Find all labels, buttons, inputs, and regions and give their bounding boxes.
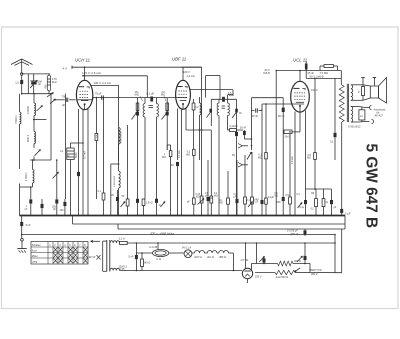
loudspeaker (370, 86, 378, 98)
UCH cathode wires (82, 110, 84, 148)
capacitor UBF cathode (176, 162, 179, 166)
svg-text:225 V: 225 V (255, 275, 262, 278)
tone capacitor 0,1 (334, 133, 337, 137)
bus line 3 (118, 228, 345, 230)
IF2 secondary lower (236, 121, 238, 132)
tube UCL11 (291, 81, 310, 112)
mains transformer bottom winding (110, 268, 120, 270)
svg-text:U 2×48: U 2×48 (149, 246, 158, 249)
IF2 bottom wires (218, 121, 220, 216)
svg-text:50: 50 (122, 195, 125, 198)
svg-text:500: 500 (277, 201, 282, 204)
capacitor 2x0,05uF (304, 230, 307, 234)
UBF screen loop (206, 75, 220, 77)
IF1 trimmer left (132, 112, 138, 120)
svg-text:pF: pF (62, 103, 65, 107)
wire band switch row (30, 159, 51, 161)
antenna A1 (11, 59, 33, 65)
wire tank bottom (22, 93, 51, 95)
antenna coil 700/0,1 (20, 112, 22, 124)
svg-text:0,1µ: 0,1µ (300, 207, 305, 209)
fuse 0,1A (120, 241, 128, 244)
switch position table (31, 242, 88, 265)
ground bus (20, 215, 346, 217)
svg-text:900: 900 (45, 84, 48, 89)
resistor 5k speaker (362, 87, 365, 96)
oscillator coil 0,0035 (34, 103, 36, 116)
UY11 leads (245, 243, 247, 268)
trimmer arrow row 2 (161, 202, 166, 208)
resistor col 290 (289, 197, 292, 204)
dial lamp (184, 250, 192, 258)
svg-text:Anschluss: Anschluss (374, 108, 387, 112)
resistor 50pF col (126, 199, 129, 206)
wave trap coil 0,003 (47, 75, 50, 91)
resistor 0,5M right (314, 78, 316, 152)
svg-text:0,2: 0,2 (311, 209, 315, 211)
svg-text:U 901 B/12: U 901 B/12 (348, 126, 361, 129)
capacitor cluster a (305, 189, 307, 200)
switch contact mains 2 (297, 256, 303, 262)
switch contact mains 1 (259, 257, 265, 263)
UCH output wire (77, 99, 93, 101)
svg-text:1M: 1M (311, 193, 314, 195)
capacitor 1,5nF antenna (20, 80, 23, 84)
ext speaker winding (351, 107, 353, 123)
capacitor UCH col3 (77, 172, 80, 176)
capacitor 20uF (116, 197, 119, 201)
tube UBF11 (176, 80, 191, 109)
svg-text:TA: TA (232, 153, 236, 157)
capacitor 1nF (29, 199, 32, 203)
oscillator feedback coil 5000 (67, 148, 74, 160)
svg-text:Kurz: Kurz (32, 249, 38, 252)
anode line 130V (91, 84, 119, 86)
svg-text:Mittel: Mittel (32, 255, 38, 258)
right cluster bracket (306, 188, 332, 190)
capacitor 50nF mid (236, 199, 239, 203)
ext speaker terminal 1 (370, 106, 372, 110)
svg-text:5 nF: 5 nF (129, 256, 134, 259)
svg-text:4,2 mA: 4,2 mA (187, 74, 195, 78)
AF choke coil (200, 103, 202, 115)
svg-text:(250 V): (250 V) (290, 233, 298, 236)
capacitor cluster d (331, 189, 333, 200)
capacitor 5nF ground (20, 222, 23, 226)
svg-text:0,0035: 0,0035 (26, 106, 30, 114)
svg-text:1: 1 (49, 244, 51, 247)
svg-text:8: 8 (84, 244, 86, 247)
svg-text:1,5: 1,5 (15, 80, 19, 84)
capacitor 2uF bus (340, 209, 343, 213)
svg-text:Schalter: Schalter (32, 244, 41, 247)
svg-text:UCH 11: UCH 11 (75, 58, 91, 63)
svg-text:2k: 2k (67, 155, 70, 158)
svg-text:(L): (L) (220, 200, 223, 202)
bottom rail wire (120, 270, 243, 272)
svg-text:2 µF: 2 µF (344, 211, 351, 215)
svg-text:MΩ: MΩ (186, 153, 190, 156)
mains transformer left lead (102, 241, 104, 271)
mains transformer core (106, 240, 108, 272)
field coil resistor (339, 85, 344, 122)
capacitor 70pF (101, 95, 103, 99)
svg-text:nF: nF (25, 208, 28, 211)
svg-text:3: 3 (59, 244, 61, 247)
svg-text:160 V: 160 V (183, 70, 190, 74)
svg-text:5,4 mA: 5,4 mA (178, 150, 181, 158)
UCH cathode down (82, 148, 84, 216)
IF2 top capacitor (222, 97, 225, 102)
parallel branch wire (27, 74, 29, 94)
trimmer arrow row 1 (121, 202, 126, 208)
right rail lower (341, 229, 343, 273)
svg-text:MΩ: MΩ (219, 203, 223, 205)
heater wire right (229, 252, 234, 254)
ground symbol (21, 238, 24, 241)
svg-text:103 V: 103 V (311, 88, 318, 92)
svg-text:70 pF: 70 pF (95, 92, 102, 96)
svg-text:Anat 500 Ω: Anat 500 Ω (276, 276, 289, 279)
heater chain coils (194, 251, 204, 254)
screen line 2 (83, 75, 147, 77)
svg-text:700/0,1: 700/0,1 (14, 115, 18, 124)
capacitor 50nF grid (255, 108, 257, 112)
antenna terminal (21, 73, 23, 75)
capacitor 25nF anode (305, 64, 308, 70)
resistor Anat 500 Ohm (275, 270, 295, 274)
svg-text:µF: µF (334, 207, 337, 209)
svg-text:0,1: 0,1 (60, 150, 64, 153)
svg-text:pF: pF (38, 82, 41, 86)
IF1 bottom wires (137, 122, 139, 199)
switch contact c (37, 106, 43, 112)
heater wire mid (169, 252, 184, 254)
mains plug cross (97, 255, 101, 260)
resistor 0,1M col103 (102, 193, 105, 200)
svg-text:7500/7,5 W: 7500/7,5 W (309, 269, 322, 272)
capacitor 700pF grid (65, 98, 67, 102)
coil 175/0,1 (33, 170, 35, 184)
UBF diode wire (189, 89, 233, 91)
resistor cluster b (315, 189, 317, 199)
svg-text:50 nF: 50 nF (240, 127, 247, 130)
svg-text:1,5 kΩ: 1,5 kΩ (146, 203, 153, 205)
supply line 145V (71, 66, 73, 69)
UCL cathode resistor (284, 130, 292, 134)
IF2 top wire (211, 98, 236, 100)
capacitor 500pF (282, 197, 285, 201)
capacitor bottom 1 (263, 258, 266, 262)
svg-text:UBF 11: UBF 11 (172, 57, 187, 62)
svg-text:0,1 µF: 0,1 µF (147, 92, 155, 96)
svg-text:4,8 mA: 4,8 mA (291, 156, 294, 164)
svg-text:5000: 5000 (75, 152, 78, 158)
wire column x96 (95, 98, 97, 134)
switch TA (247, 152, 252, 160)
ballast tube U2x48 (152, 249, 168, 256)
svg-text:90 V, Ja/6-B: 90 V, Ja/6-B (310, 74, 324, 78)
IF2 right bracket (236, 99, 238, 121)
resistor 0,5M diode (193, 149, 196, 155)
grid wire UCH (54, 99, 65, 101)
svg-text:50 nF: 50 nF (252, 114, 259, 118)
trimmer arrow row 4 (298, 203, 303, 209)
wire column x110 (110, 164, 112, 216)
wire antenna tank top (22, 73, 50, 75)
svg-text:5 GW 647 B: 5 GW 647 B (362, 144, 379, 229)
IF2 left bracket (210, 99, 212, 121)
ext speaker matching box (359, 110, 365, 120)
svg-text:0,3: 0,3 (297, 194, 301, 196)
capacitor stub x42 (41, 204, 44, 208)
trimmer capacitor 100pF (31, 82, 36, 85)
IF2 trimmer left (207, 111, 212, 118)
osc coil leads (70, 143, 72, 148)
wire IF1 to UBF grid (167, 97, 187, 99)
svg-text:0,0005 MW: 0,0005 MW (114, 175, 116, 187)
IF1 primary coil (143, 104, 145, 118)
svg-text:6: 6 (74, 244, 76, 247)
svg-text:4 V: 4 V (63, 66, 68, 70)
svg-text:UCH 11: UCH 11 (194, 257, 203, 259)
svg-text:240 Ω: 240 Ω (144, 261, 151, 264)
diode load resistor 0,2 (192, 103, 195, 110)
svg-text:100: 100 (60, 209, 65, 212)
svg-text:0,05 100/25: 0,05 100/25 (121, 131, 123, 143)
IF2 secondary coil (228, 103, 230, 116)
bus stub to ground (21, 216, 23, 223)
wire column x103 (103, 98, 105, 193)
svg-text:AF 427: AF 427 (375, 114, 384, 118)
detector coil 0,0005 (119, 171, 121, 188)
IF1 coupling capacitor 0,1uF (150, 97, 153, 102)
svg-text:0,1: 0,1 (330, 141, 334, 144)
svg-text:60/0,1: 60/0,1 (26, 134, 30, 142)
line 90V Ja (306, 77, 341, 79)
resistor 240 Ohm heater (141, 253, 143, 259)
IF1 left bracket (137, 98, 139, 122)
resistor 0,7M mid (251, 197, 254, 204)
IF1 screen drop wire (146, 76, 148, 98)
svg-text:MΩ: MΩ (196, 197, 200, 199)
resistor 1 MOhm IF1 (169, 151, 172, 157)
svg-text:4: 4 (64, 244, 66, 247)
mains transformer top winding (110, 241, 120, 243)
IF1 right bracket capacitor (166, 112, 169, 116)
wire y164 link (111, 163, 119, 165)
rectifier tube UY11 (242, 268, 252, 278)
svg-text:7: 7 (79, 244, 81, 247)
svg-text:32 W: 32 W (89, 255, 96, 259)
anode drop wire x118 (118, 85, 120, 161)
svg-text:MΩ: MΩ (307, 157, 311, 160)
resistor L MOhm (227, 171, 229, 198)
capacitor after 1k (243, 131, 246, 135)
svg-text:5: 5 (69, 244, 71, 247)
svg-text:50: 50 (171, 164, 174, 167)
resistor col 211 (210, 196, 213, 203)
svg-text:pF: pF (187, 202, 190, 204)
wire oscillator link (33, 119, 47, 121)
svg-text:µF: µF (256, 202, 259, 204)
bus line 2 (73, 223, 346, 225)
svg-text:50 nF: 50 nF (278, 114, 285, 118)
svg-text:4Ω: 4Ω (360, 116, 363, 118)
IF2 primary coil (217, 103, 219, 116)
wire col 305 (305, 111, 307, 190)
resistor 7,5M (324, 65, 334, 68)
resistor cluster c (323, 189, 325, 199)
svg-text:U 11: U 11 (157, 259, 162, 261)
IF1 trimmer right (162, 113, 168, 120)
svg-text:0,2: 0,2 (195, 106, 199, 109)
svg-text:UCL 11: UCL 11 (293, 58, 308, 63)
svg-text:MΩ: MΩ (161, 93, 165, 97)
svg-text:282 V: 282 V (311, 273, 318, 276)
svg-text:9V 0,1 A: 9V 0,1 A (182, 246, 191, 249)
svg-text:MΩ: MΩ (135, 93, 139, 97)
svg-text:UBF 11: UBF 11 (219, 257, 227, 259)
svg-text:kHz: kHz (52, 80, 57, 84)
svg-text:1k: 1k (326, 202, 329, 204)
svg-text:30: 30 (239, 112, 242, 115)
UCL cathode wires (294, 112, 296, 216)
IF1 core (149, 105, 154, 107)
IF1 secondary coil (157, 104, 159, 118)
svg-text:5k: 5k (359, 90, 361, 93)
svg-text:2: 2 (54, 244, 56, 247)
svg-text:ZF = 468 kHz: ZF = 468 kHz (149, 231, 174, 236)
svg-text:0,05: 0,05 (120, 268, 125, 271)
svg-text:20: 20 (111, 194, 114, 197)
resistor pF MOhm (192, 198, 195, 204)
switch contact a (47, 93, 54, 97)
svg-text:3,7 mA: 3,7 mA (84, 151, 87, 159)
switch contact b (50, 99, 56, 104)
UCH11 top stub (84, 67, 86, 80)
pickup terminal TA upper (238, 144, 243, 149)
switch contact d (35, 150, 41, 156)
IF2 trimmer right (232, 111, 237, 118)
IF2 core (222, 105, 225, 107)
screen col 276 (275, 71, 277, 216)
svg-text:MΩ: MΩ (162, 156, 166, 159)
svg-text:0,1: 0,1 (98, 190, 102, 193)
capacitor 50nF feedback (282, 108, 285, 112)
trimmer arrow row 3 (248, 202, 253, 208)
capacitor bottom 2 (304, 256, 307, 260)
svg-text:175/0,1: 175/0,1 (24, 172, 28, 181)
svg-text:0,1 A: 0,1 A (119, 237, 125, 241)
svg-text:UCL 11: UCL 11 (207, 257, 215, 259)
UCL grid wire (262, 103, 304, 105)
svg-text:0,5µ: 0,5µ (286, 195, 291, 197)
svg-text:MΩ: MΩ (214, 196, 218, 198)
volume potentiometer (200, 196, 203, 203)
output transformer core (346, 84, 348, 122)
pickup terminal TA lower (238, 163, 243, 168)
bus line 4 (22, 234, 335, 236)
wire column x51 (50, 94, 52, 160)
svg-text:Ö/5-B: Ö/5-B (263, 71, 270, 75)
svg-text:MΩ: MΩ (275, 196, 279, 198)
resistor 0,15M mid (244, 197, 247, 204)
svg-text:Lang: Lang (32, 260, 38, 263)
svg-text:MΩ: MΩ (258, 156, 262, 159)
svg-text:5 nF: 5 nF (26, 223, 32, 227)
capacitor 250pF (55, 199, 58, 203)
ext speaker terminal 2 (372, 120, 374, 124)
UBF anode loop (182, 67, 184, 80)
IF1 top wire (138, 97, 168, 99)
wire column x65 (65, 94, 67, 200)
tube UCH11 (76, 80, 92, 109)
pointer arrow to table (91, 240, 101, 242)
IF2 coupling coil 4,5 (228, 94, 234, 95)
capacitor 5nF mains (135, 243, 137, 255)
speaker terminal stubs (362, 78, 364, 85)
switch contact e (53, 172, 59, 179)
UCL11 top stub (299, 71, 301, 82)
IF1 right bracket (166, 98, 168, 122)
svg-text:130 V, 2,4 mA: 130 V, 2,4 mA (94, 81, 112, 85)
resistor 1/1k (230, 129, 237, 132)
capacitor 50nF AF (207, 197, 210, 201)
coil 60/0,1 (34, 132, 36, 144)
supply line right (277, 70, 341, 72)
svg-text:0,1: 0,1 (247, 199, 251, 202)
left rail wire (19, 94, 21, 112)
output transformer primary (351, 85, 353, 101)
capacitor IF1 sec (155, 199, 158, 203)
wire col 266 (265, 104, 267, 153)
resistor 50 IF1 (142, 199, 145, 206)
resistor 300 Ohm (278, 261, 294, 266)
UBF cathode wires (177, 109, 179, 161)
capacitor 100pF lower (63, 202, 66, 206)
AF row wire (186, 129, 211, 131)
IF1 left bracket capacitor (136, 112, 139, 116)
osc tuning coil 0,05 (119, 128, 121, 145)
svg-text:UY 11: UY 11 (241, 258, 249, 262)
